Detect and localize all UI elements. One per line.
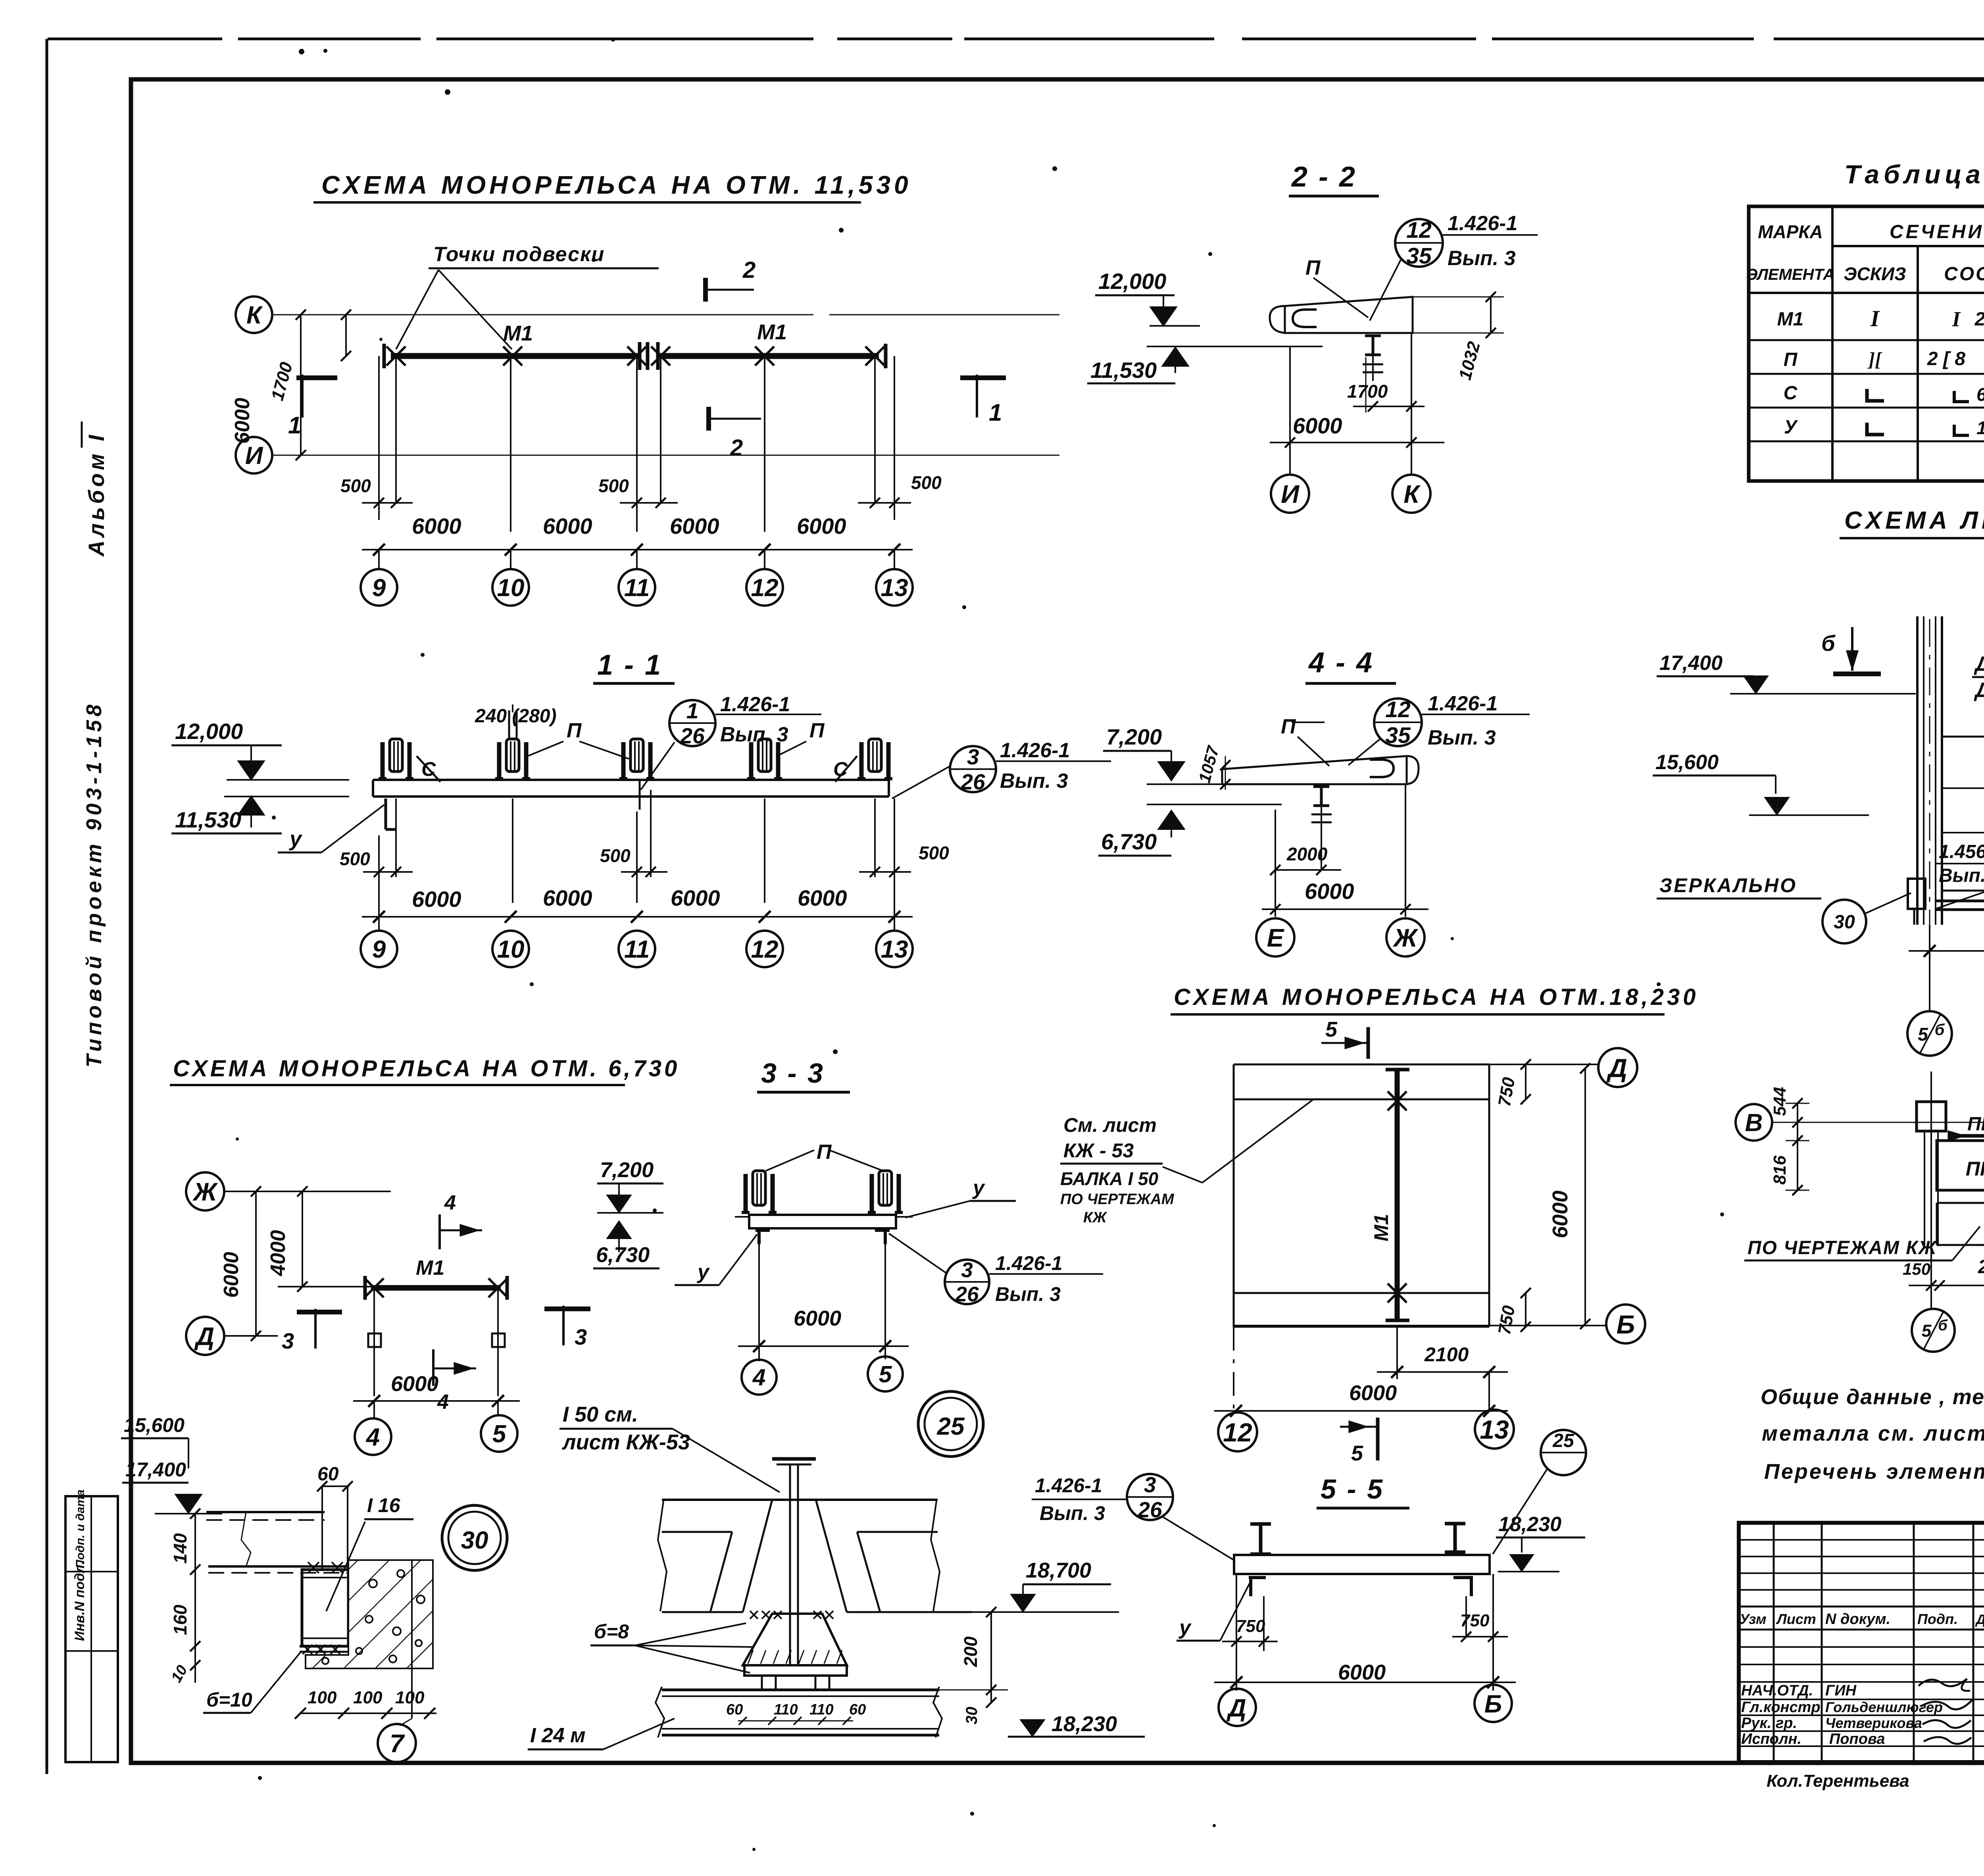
elevation triangle <box>176 1495 201 1513</box>
svg-text:9: 9 <box>372 936 386 963</box>
svg-text:13: 13 <box>881 936 908 963</box>
svg-text:5: 5 <box>1918 1024 1928 1045</box>
svg-text:П: П <box>1305 256 1321 279</box>
section mark 3 (right) <box>562 1306 565 1345</box>
axis В line <box>1772 1122 1984 1123</box>
svg-text:Б: Б <box>1617 1310 1635 1339</box>
elevation 11,530 <box>1163 348 1188 366</box>
svg-text:ПО ЧЕРТЕЖАМ КЖ: ПО ЧЕРТЕЖАМ КЖ <box>1748 1237 1937 1258</box>
svg-text:500: 500 <box>340 849 370 869</box>
monorail I-beam 24М <box>662 1689 939 1691</box>
svg-text:7,200: 7,200 <box>1106 724 1162 749</box>
svg-text:6000: 6000 <box>1293 413 1342 438</box>
svg-text:6000: 6000 <box>220 1252 243 1298</box>
table header bottom line <box>1749 292 1984 294</box>
svg-text:2: 2 <box>742 257 756 283</box>
svg-text:Вып. 3: Вып. 3 <box>1428 726 1496 749</box>
flag circle 3/26 right with 1.426-1 Вып.3 <box>950 746 996 792</box>
svg-text:12: 12 <box>1406 217 1432 243</box>
svg-text:ПО ЧЕРТЕЖАМ: ПО ЧЕРТЕЖАМ <box>1060 1191 1175 1208</box>
svg-text:Вып. 3: Вып. 3 <box>1939 865 1984 886</box>
section mark 5 (top) <box>1367 1027 1370 1059</box>
svg-text:25: 25 <box>1552 1430 1575 1451</box>
svg-text:6000: 6000 <box>412 514 461 539</box>
500 ticks section <box>363 871 413 873</box>
svg-text:Гольденшлюгер: Гольденшлюгер <box>1825 1699 1943 1715</box>
header row Узм/Лист/Ндокум/Подп/Дата <box>1739 1606 1984 1608</box>
svg-text:ДГ29: ДГ29 <box>1974 679 1984 702</box>
column verticals <box>321 1486 323 1570</box>
elevation line 12.000 <box>227 779 349 781</box>
svg-text:у: у <box>696 1260 710 1283</box>
svg-text:24 М: 24 М <box>1974 309 1984 330</box>
short line at 4000 bottom <box>278 1286 379 1287</box>
svg-text:М1: М1 <box>416 1256 444 1280</box>
dim 6000 vertical <box>255 1191 257 1336</box>
drop lines and squares <box>373 1288 375 1396</box>
beam band 3-3 <box>749 1215 896 1228</box>
svg-text:б: б <box>1935 1021 1945 1039</box>
left column (stairs) <box>1916 616 1919 925</box>
beam top (dashed double) <box>206 1511 325 1513</box>
svg-text:6000: 6000 <box>1548 1191 1572 1238</box>
svg-text:М1: М1 <box>503 321 533 345</box>
svg-text:4: 4 <box>444 1191 456 1214</box>
revision rows (top small) <box>1739 1539 1984 1541</box>
svg-text:3 - 3: 3 - 3 <box>761 1058 825 1089</box>
svg-text:17,400: 17,400 <box>1659 652 1723 675</box>
axis bubble В <box>1736 1104 1772 1141</box>
svg-text:ГИН: ГИН <box>1825 1682 1857 1699</box>
svg-text:4000: 4000 <box>267 1230 290 1276</box>
section mark 4 (bottom) <box>432 1349 434 1386</box>
svg-text:БАЛКА I 50: БАЛКА I 50 <box>1060 1168 1159 1189</box>
svg-text:5: 5 <box>1351 1441 1363 1465</box>
column top squares <box>1917 1102 1946 1131</box>
svg-text:ЗЕРКАЛЬНО: ЗЕРКАЛЬНО <box>1659 874 1797 897</box>
svg-text:П: П <box>817 1141 832 1164</box>
title block outer <box>1739 1523 1984 1762</box>
axis bubble Б (18,230) <box>1606 1305 1645 1343</box>
section mark б (left) <box>1851 627 1853 671</box>
table vertical lines <box>1831 206 1834 481</box>
svg-text:7,200: 7,200 <box>600 1158 654 1182</box>
svg-text:1700: 1700 <box>1347 381 1388 402</box>
svg-text:1: 1 <box>686 698 699 723</box>
svg-text:I: I <box>1951 307 1961 331</box>
svg-text:у: у <box>288 827 303 851</box>
svg-text:у: у <box>1178 1616 1192 1639</box>
svg-text:Ж: Ж <box>192 1178 218 1206</box>
svg-text:I 24 м: I 24 м <box>530 1724 586 1747</box>
svg-text:100: 100 <box>395 1688 425 1707</box>
roof beam (4-4, mirrored) <box>1222 756 1407 784</box>
svg-text:3: 3 <box>575 1324 587 1349</box>
svg-text:Подп.: Подп. <box>1917 1611 1958 1627</box>
svg-text:3: 3 <box>961 1258 973 1282</box>
drop lines (3-3) <box>758 1244 760 1361</box>
axis bubble И <box>236 437 272 473</box>
elevation line 11.530 <box>224 796 349 797</box>
svg-text:30: 30 <box>461 1527 488 1554</box>
svg-text:30: 30 <box>963 1707 980 1725</box>
drop lines Е Ж <box>1275 810 1276 917</box>
flag circle 12/35 <box>1395 219 1443 267</box>
svg-text:60: 60 <box>726 1701 743 1718</box>
monorail beam M1 (right span) <box>658 353 879 359</box>
signature rows <box>1739 1699 1984 1700</box>
flag circle 12/35 (4-4) <box>1374 698 1422 746</box>
axis line Ж <box>224 1191 391 1192</box>
svg-text:И: И <box>245 442 263 469</box>
table outer box <box>1749 206 1984 481</box>
grid bubbles 9-13 (plan) <box>378 550 380 569</box>
dim 2000 <box>1275 869 1341 871</box>
dim 6000 (4-4) <box>1262 908 1428 910</box>
svg-text:][: ][ <box>1867 348 1883 370</box>
flag circle 1/26 with 1.426-1 Вып.3 <box>669 700 715 746</box>
hanger I symbol below beam <box>1365 335 1381 337</box>
svg-text:5 - 5: 5 - 5 <box>1321 1474 1384 1505</box>
svg-text:I 16: I 16 <box>367 1494 401 1516</box>
svg-text:N докум.: N докум. <box>1825 1611 1890 1628</box>
hanger drop lines near grid 13 <box>894 356 895 520</box>
svg-text:Вып. 3: Вып. 3 <box>1448 247 1516 270</box>
svg-text:12: 12 <box>751 574 779 602</box>
hanger drop lines near grid 9 <box>378 356 380 520</box>
flag 3/26 (3-3) <box>889 1233 946 1273</box>
dimension line 6000 x4 (section) <box>362 916 913 918</box>
svg-text:Ж: Ж <box>1392 924 1419 952</box>
axis bubble К <box>236 296 272 333</box>
svg-text:2100: 2100 <box>1424 1343 1469 1366</box>
svg-text:500: 500 <box>340 475 371 496</box>
svg-text:Кол.Терентьева: Кол.Терентьева <box>1767 1771 1909 1791</box>
svg-text:СХЕМА ЛЕСТНИЦЫ НА ОТМ. 17: СХЕМА ЛЕСТНИЦЫ НА ОТМ. 17,400 <box>1844 507 1984 534</box>
svg-text:6000: 6000 <box>543 514 592 539</box>
dim 750 left <box>1236 1574 1237 1651</box>
svg-text:2: 2 <box>730 435 743 461</box>
dim 4000 vertical <box>302 1191 303 1287</box>
dim 750 bottom right <box>1525 1293 1526 1327</box>
dim 2100 <box>1396 1327 1398 1379</box>
svg-text:25: 25 <box>937 1413 965 1440</box>
table subheader line <box>1832 245 1984 247</box>
bottom dimension line 6000 x4 <box>362 549 913 550</box>
svg-text:П: П <box>1784 349 1798 370</box>
svg-text:Таблица элементов конструк: Таблица элементов конструкций <box>1844 160 1984 189</box>
svg-text:100: 100 <box>308 1688 337 1707</box>
svg-text:5: 5 <box>879 1361 892 1387</box>
suspension X marks <box>386 346 406 366</box>
section mark 2 (top) <box>703 278 708 302</box>
svg-text:С: С <box>1784 383 1798 404</box>
svg-text:12,000: 12,000 <box>1098 269 1166 294</box>
grid bubbles 4 5 (3-3) <box>742 1360 777 1395</box>
svg-text:б: б <box>1821 631 1836 656</box>
svg-text:1.456-2: 1.456-2 <box>1939 841 1984 862</box>
svg-text:6000: 6000 <box>671 885 720 910</box>
svg-text:4 - 4: 4 - 4 <box>1308 647 1374 679</box>
axis bubble Д <box>186 1317 224 1355</box>
dim 750 right <box>1492 1574 1494 1691</box>
svg-text:ЭСКИЗ: ЭСКИЗ <box>1844 264 1906 284</box>
axis bubbles И К (2-2) <box>1271 475 1309 513</box>
hanger rod T-head <box>772 1457 816 1461</box>
svg-text:1: 1 <box>989 399 1002 426</box>
svg-text:2 [ 8: 2 [ 8 <box>1927 348 1965 369</box>
dim 1032 (rotated right) <box>1490 297 1492 333</box>
svg-text:Альбом I: Альбом I <box>84 432 109 557</box>
dim 6000 bottom (18,230) <box>1214 1410 1508 1412</box>
base plate lines <box>300 1645 348 1648</box>
roof slabs (section) <box>662 1499 938 1501</box>
svg-text:5: 5 <box>492 1420 507 1448</box>
svg-text:5: 5 <box>1325 1018 1338 1041</box>
svg-text:100 х 7: 100 х 7 <box>1976 418 1984 438</box>
vertical drop lines И К <box>1289 346 1291 474</box>
svg-text:Исполн.: Исполн. <box>1741 1731 1801 1747</box>
axis bubble Д (18,230) <box>1598 1048 1637 1087</box>
monorail end bars <box>383 344 386 368</box>
dim 6000 (2-2) <box>1270 442 1444 443</box>
svg-text:у: у <box>972 1176 986 1199</box>
lower ribbed band <box>1937 1202 1984 1204</box>
svg-text:6000: 6000 <box>670 514 719 539</box>
svg-text:13: 13 <box>881 574 908 602</box>
svg-text:6000: 6000 <box>543 885 592 910</box>
table row lines <box>1749 339 1984 341</box>
svg-text:60: 60 <box>849 1701 866 1718</box>
svg-text:1.426-1: 1.426-1 <box>1000 739 1070 762</box>
left landing platform <box>1942 737 1984 891</box>
svg-text:М1: М1 <box>1777 309 1804 330</box>
svg-text:И: И <box>1281 480 1300 508</box>
svg-text:18,700: 18,700 <box>1026 1559 1091 1582</box>
svg-text:Е: Е <box>1267 924 1285 952</box>
svg-text:Точки подвески: Точки подвески <box>433 243 605 266</box>
svg-text:Вып. 3: Вып. 3 <box>1040 1502 1105 1524</box>
svg-text:Гл.констр: Гл.констр <box>1741 1699 1821 1716</box>
svg-text:4: 4 <box>752 1364 766 1391</box>
grid bubbles 5|6 and 7 (Б-Б) <box>1912 1309 1955 1352</box>
svg-text:4: 4 <box>365 1424 380 1451</box>
svg-text:9: 9 <box>372 574 386 602</box>
svg-text:12: 12 <box>751 936 779 963</box>
axis line Д stub <box>224 1335 278 1337</box>
svg-text:500: 500 <box>600 845 631 866</box>
svg-text:18,230: 18,230 <box>1052 1712 1117 1736</box>
elevation line 11,530 long <box>1147 346 1323 347</box>
У angles below beam (3-3) <box>756 1229 770 1232</box>
empty rows <box>1739 1646 1984 1648</box>
svg-text:СХЕМА МОНОРЕЛЬСА НА ОТМ. 1: СХЕМА МОНОРЕЛЬСА НА ОТМ. 11,530 <box>321 171 912 199</box>
leader lines from Точки подвески to suspension points <box>396 270 438 349</box>
left column base shoe <box>1908 879 1925 909</box>
slab ПГ17 <box>1937 1141 1984 1190</box>
svg-text:750: 750 <box>1236 1616 1265 1636</box>
grid bubbles 12 13 (18,230) <box>1218 1412 1257 1451</box>
svg-text:См. лист: См. лист <box>1063 1114 1157 1136</box>
svg-text:У: У <box>1784 417 1798 438</box>
svg-text:1.426-1: 1.426-1 <box>1448 212 1517 235</box>
column section I16 <box>302 1570 348 1646</box>
plan rectangle (18,230) <box>1234 1064 1489 1066</box>
svg-text:Д: Д <box>1226 1694 1246 1722</box>
outer sheet edge top (broken scan line) <box>48 38 222 40</box>
axis lines to Д and Б <box>1489 1064 1598 1065</box>
column center dash lines <box>1930 1072 1932 1310</box>
svg-text:6000: 6000 <box>798 885 847 910</box>
beam box (5-5) <box>1234 1555 1490 1574</box>
svg-text:200: 200 <box>960 1636 981 1667</box>
svg-text:11,530: 11,530 <box>175 807 241 832</box>
drop lines to dim line <box>378 835 380 931</box>
svg-text:11: 11 <box>624 574 650 602</box>
svg-text:15,600: 15,600 <box>1655 751 1719 774</box>
section mark 3 (left) <box>314 1309 317 1349</box>
svg-text:15,600: 15,600 <box>124 1414 185 1436</box>
hanger rod 240(280) above grid 10 <box>508 710 510 739</box>
svg-text:30: 30 <box>1834 912 1855 933</box>
svg-text:Узм: Узм <box>1740 1611 1767 1627</box>
svg-text:Вып. 3: Вып. 3 <box>995 1283 1061 1305</box>
elevation 6,730 <box>1159 811 1184 829</box>
bracket base plate <box>744 1665 847 1676</box>
У angles (5-5) <box>1249 1576 1266 1579</box>
dim 750 top right <box>1525 1064 1526 1099</box>
roof beam (tapered, side view) <box>1285 297 1413 333</box>
svg-text:В: В <box>1745 1109 1763 1137</box>
svg-text:Типовой проект 903-1-158: Типовой проект 903-1-158 <box>82 701 106 1068</box>
dim 6000 (6,730) <box>353 1400 520 1402</box>
svg-text:Инв.N подл.: Инв.N подл. <box>72 1561 87 1641</box>
svg-text:1 - 1: 1 - 1 <box>597 649 662 681</box>
section mark 5 (bottom) <box>1376 1418 1380 1460</box>
axis bubbles Е Ж <box>1256 918 1294 956</box>
svg-text:26: 26 <box>955 1283 979 1306</box>
svg-text:6000: 6000 <box>1349 1381 1397 1405</box>
svg-text:I 50 см.: I 50 см. <box>563 1403 638 1426</box>
svg-text:1.426-1: 1.426-1 <box>1035 1474 1102 1497</box>
dim 6000 between К and И (rotated) <box>300 315 302 455</box>
axis bubble Ж <box>186 1172 224 1210</box>
axis line К <box>273 314 813 316</box>
svg-text:13: 13 <box>1480 1415 1509 1444</box>
svg-text:3: 3 <box>282 1328 294 1353</box>
svg-text:П: П <box>1281 715 1296 738</box>
svg-text:150: 150 <box>1903 1260 1930 1278</box>
svg-text:26: 26 <box>1137 1497 1162 1522</box>
monorail М1 (6,730) <box>371 1285 501 1291</box>
svg-text:60: 60 <box>317 1464 339 1485</box>
dims 100x3 <box>300 1712 436 1714</box>
svg-text:1.426-1: 1.426-1 <box>995 1252 1063 1274</box>
grid line 12 drop <box>764 356 765 532</box>
svg-text:63 х 5: 63 х 5 <box>1976 384 1984 405</box>
svg-text:Б: Б <box>1484 1690 1502 1718</box>
svg-text:б: б <box>1938 1317 1948 1334</box>
svg-text:500: 500 <box>598 475 629 496</box>
svg-text:К: К <box>1403 480 1421 508</box>
section mark 1 (right) <box>976 375 978 418</box>
left slab <box>743 1500 772 1612</box>
svg-text:240 (280): 240 (280) <box>475 706 556 727</box>
dim 1700 (rotated) <box>345 315 347 356</box>
stairs dim 6000 <box>1909 950 1984 952</box>
svg-text:6000: 6000 <box>794 1306 841 1330</box>
grid bubbles 9-13 (section 1-1) <box>361 931 397 967</box>
svg-text:500: 500 <box>911 472 942 493</box>
hanger drop lines near grid 11 <box>636 356 638 532</box>
svg-text:12: 12 <box>1223 1418 1252 1447</box>
svg-text:6000: 6000 <box>1305 879 1354 904</box>
svg-text:3: 3 <box>967 745 979 769</box>
dim 1700 <box>1365 357 1367 413</box>
center line to bubble 7 <box>411 1560 413 1718</box>
svg-text:6,730: 6,730 <box>1101 829 1157 854</box>
vertical dim chain 140/160/10 <box>194 1514 196 1683</box>
svg-text:7: 7 <box>390 1729 405 1758</box>
section mark 2 (bottom) <box>706 407 711 431</box>
beam band (monorail in section) <box>373 779 889 781</box>
svg-text:КЖ - 53: КЖ - 53 <box>1063 1139 1134 1162</box>
svg-text:140: 140 <box>170 1533 190 1564</box>
svg-text:35: 35 <box>1406 243 1432 269</box>
svg-text:Общие данные , техническую: Общие данные , техническую спецификацию <box>1761 1385 1984 1409</box>
svg-text:2400: 2400 <box>1978 1256 1984 1278</box>
svg-text:ПГ 17: ПГ 17 <box>1966 1158 1984 1180</box>
svg-text:5: 5 <box>1922 1321 1932 1341</box>
stairs grid bubbles 5|6 and 7 <box>1929 925 1930 1012</box>
svg-text:17,400: 17,400 <box>125 1458 186 1481</box>
monorail I symbols on beam <box>1250 1522 1271 1526</box>
svg-text:816: 816 <box>1770 1155 1790 1185</box>
hangers 3-3 <box>744 1174 748 1212</box>
svg-text:Д: Д <box>194 1322 214 1351</box>
title block left columns <box>1773 1523 1775 1762</box>
left landing floor band <box>1936 900 1984 902</box>
svg-text:Вып. 3: Вып. 3 <box>1000 770 1068 793</box>
svg-text:Подп. и дата: Подп. и дата <box>74 1489 87 1568</box>
anchor marks <box>308 1562 319 1573</box>
svg-text:К: К <box>246 302 263 329</box>
svg-text:11,530: 11,530 <box>1090 358 1157 383</box>
svg-text:35: 35 <box>1385 723 1411 748</box>
svg-text:160: 160 <box>170 1605 190 1635</box>
svg-text:Вып. 3: Вып. 3 <box>720 723 788 746</box>
svg-text:11: 11 <box>624 936 650 963</box>
hanger I symbol (4-4) <box>1313 785 1329 788</box>
svg-text:110: 110 <box>774 1701 798 1718</box>
flag 25 circle (5-5) <box>1541 1430 1586 1475</box>
hangers (П clamps) <box>381 742 385 779</box>
slab break marks <box>658 1501 667 1611</box>
svg-text:МАРКА: МАРКА <box>1758 221 1823 242</box>
svg-text:6000: 6000 <box>231 398 254 444</box>
margin stamp table (Инв N подл / Подп. и дата) <box>65 1496 118 1762</box>
svg-text:Перечень элементов см. на: Перечень элементов см. на листе 9 . <box>1764 1460 1984 1483</box>
svg-text:500: 500 <box>919 843 949 863</box>
svg-text:I: I <box>1870 306 1880 331</box>
svg-text:НАЧ.ОТД.: НАЧ.ОТД. <box>1741 1682 1813 1699</box>
svg-text:4: 4 <box>437 1391 449 1414</box>
svg-text:СЕЧЕНИЕ: СЕЧЕНИЕ <box>1890 221 1984 242</box>
svg-text:6000: 6000 <box>797 514 846 539</box>
svg-text:СХЕМА МОНОРЕЛЬСА НА ОТМ.18,: СХЕМА МОНОРЕЛЬСА НА ОТМ.18,230 <box>1174 984 1699 1010</box>
svg-text:СХЕМА МОНОРЕЛЬСА НА ОТМ. 6,: СХЕМА МОНОРЕЛЬСА НА ОТМ. 6,730 <box>173 1056 680 1081</box>
scan speckles <box>299 49 304 54</box>
